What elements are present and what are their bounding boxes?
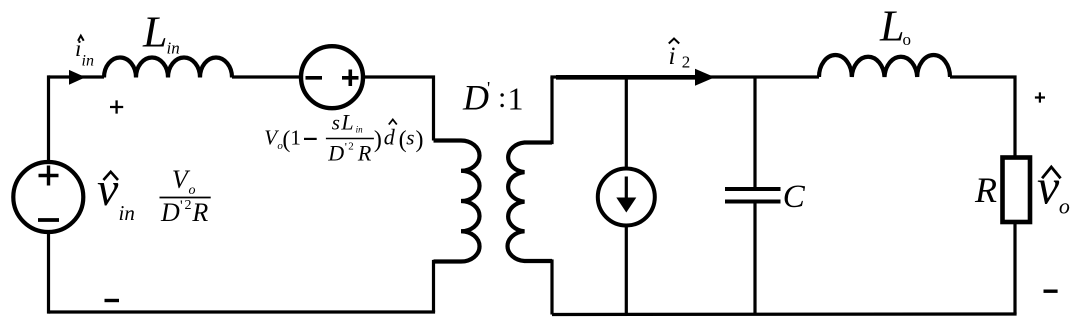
- svg-text:v: v: [97, 163, 119, 216]
- svg-text:': ': [487, 78, 490, 98]
- inductor L_in: [104, 58, 232, 78]
- plus sign inside U1: [342, 70, 359, 87]
- wire secondary bottom to rail: [550, 259, 553, 314]
- arrow i_in: [69, 70, 86, 85]
- label v_in hat: [103, 172, 118, 180]
- transformer primary winding: [434, 141, 480, 262]
- transformer secondary winding: [508, 143, 552, 262]
- svg-text:(: (: [282, 127, 290, 153]
- svg-text:): ): [374, 127, 382, 153]
- svg-text:in: in: [356, 125, 364, 135]
- inductor L_o: [819, 55, 950, 77]
- label v_o hat: [1042, 167, 1061, 178]
- arrow i_2: [556, 75, 699, 80]
- minus sign inside U1: [306, 76, 323, 80]
- svg-text:o: o: [189, 183, 196, 198]
- svg-text:i: i: [75, 36, 81, 61]
- top rail secondary: [550, 75, 819, 78]
- svg-text:R: R: [191, 198, 208, 227]
- voltage source v_in circle: [13, 162, 83, 232]
- svg-text:L: L: [142, 8, 167, 57]
- svg-text:D: D: [462, 77, 489, 117]
- svg-text:L: L: [879, 2, 904, 51]
- wire resistor bottom: [1013, 222, 1016, 314]
- svg-text:o: o: [1059, 194, 1070, 219]
- current source branch wire bottom: [625, 225, 628, 315]
- formula fraction bar: [326, 138, 374, 140]
- svg-text:in: in: [82, 53, 94, 70]
- formula d hat: [389, 119, 397, 124]
- minus polarity mark secondary: [1044, 290, 1058, 293]
- capacitor branch wire bottom: [753, 202, 756, 315]
- svg-text:2: 2: [348, 141, 354, 153]
- wire controlled source to transformer corner: [363, 77, 434, 141]
- svg-text:s: s: [332, 111, 340, 135]
- arrow inside current source: [625, 177, 628, 200]
- svg-text:2: 2: [682, 53, 691, 72]
- current source branch wire top: [625, 77, 628, 169]
- svg-text:v: v: [1037, 159, 1060, 215]
- wire left vertical top: [47, 75, 50, 163]
- svg-text:in: in: [119, 201, 135, 225]
- dependent source U1 circle: [301, 46, 363, 108]
- svg-text:in: in: [167, 39, 180, 58]
- wire top-left corner to inductor: [49, 75, 105, 78]
- svg-text:): ): [416, 127, 424, 153]
- svg-text:s: s: [406, 126, 414, 150]
- capacitor C plates: [725, 189, 781, 202]
- svg-text:1: 1: [508, 80, 524, 116]
- svg-text:L: L: [340, 110, 353, 135]
- resistor R body: [1003, 158, 1031, 223]
- svg-text:i: i: [669, 43, 676, 70]
- svg-text:o: o: [903, 30, 912, 49]
- bottom rail primary: [49, 310, 436, 313]
- plus polarity mark secondary: [1035, 92, 1045, 102]
- svg-text:1: 1: [290, 126, 301, 150]
- fraction bar: [160, 197, 211, 199]
- label i_in hat: [78, 36, 84, 41]
- top rail right of L_o: [950, 77, 1015, 158]
- svg-text:D: D: [160, 198, 180, 227]
- wire primary winding bottom to bottom rail: [432, 260, 435, 312]
- wire secondary top to rail: [550, 77, 553, 144]
- svg-text:': ': [180, 198, 183, 214]
- svg-text:R: R: [357, 141, 372, 166]
- svg-text:2: 2: [185, 198, 192, 213]
- plus sign inside v_in: [39, 166, 59, 186]
- capacitor branch wire top: [753, 77, 756, 189]
- plus polarity mark primary: [110, 100, 123, 113]
- svg-text::: :: [498, 81, 506, 114]
- wire left vertical bottom: [47, 231, 50, 314]
- current source circle: [598, 169, 655, 226]
- minus sign inside v_in: [38, 218, 59, 222]
- wire inductor to controlled source: [232, 75, 302, 78]
- bottom rail secondary: [552, 312, 1017, 316]
- minus polarity mark primary: [105, 299, 120, 302]
- svg-text:D: D: [327, 141, 344, 166]
- svg-text:C: C: [783, 179, 806, 215]
- svg-text:R: R: [974, 170, 997, 210]
- svg-text:': ': [345, 140, 347, 154]
- svg-text:d: d: [384, 125, 396, 150]
- label i_2 hat: [669, 39, 679, 44]
